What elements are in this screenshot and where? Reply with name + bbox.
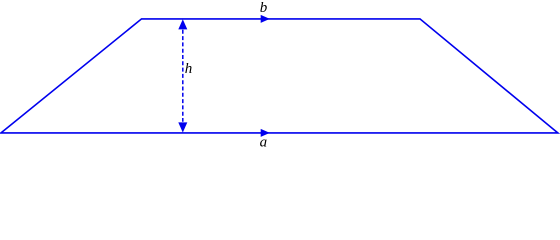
svg-text:a: a	[260, 135, 268, 149]
svg-text:b: b	[260, 0, 268, 16]
svg-text:h: h	[185, 61, 193, 77]
